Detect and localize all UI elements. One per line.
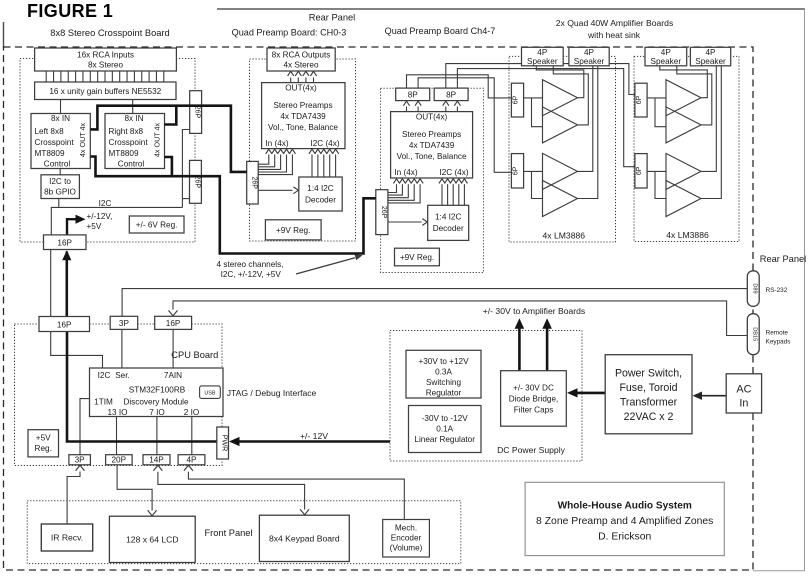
svg-text:7AIN: 7AIN [164,371,182,380]
box AC In [726,374,761,413]
wire 8P run A to amp2 6P upper [446,64,635,95]
svg-text:RS-232: RS-232 [766,287,788,294]
wire preamp B OUT(4x) arrows to 8P connectors [406,107,408,112]
connector 6P upper board1 [511,83,523,117]
svg-text:-30V to -12V: -30V to -12V [422,414,469,423]
svg-text:D89: D89 [751,283,757,293]
wire 8P run B to amp2 6P lower [457,69,635,167]
wire thick 16P to CPU 16P with up arrow [66,252,69,317]
svg-text:16x RCA Inputs: 16x RCA Inputs [77,50,134,59]
svg-text:Keypads: Keypads [766,339,791,346]
box 1:4 I2C decoder B [428,205,469,240]
svg-text:Transformer: Transformer [620,397,678,409]
box whole-house audio system title [525,482,724,555]
svg-text:Discovery Module: Discovery Module [123,397,189,406]
wire arrow label to bus [296,258,355,274]
svg-text:4x Stereo: 4x Stereo [283,61,318,70]
svg-text:JTAG / Debug Interface: JTAG / Debug Interface [227,388,317,398]
wire 6P to amp inputs lower pair (board at x+0) [524,170,543,172]
connector 26P 2 [190,160,202,203]
svg-text:3P: 3P [75,456,86,465]
svg-text:Front Panel: Front Panel [204,528,252,538]
svg-text:8x4 Keypad Board: 8x4 Keypad Board [269,534,340,544]
page frame left segment [3,22,5,48]
wire 16P to STM32 7AIN pin [172,329,174,368]
wire 6P to amp inputs upper pair (board at x+0) [524,97,543,99]
svg-text:22VAC x 2: 22VAC x 2 [624,411,674,423]
op-amp LM3886 triangle 4 (board at x+123.5) [666,181,701,217]
svg-text:I2C to: I2C to [49,177,71,186]
svg-text:8P: 8P [408,90,419,99]
wire STM32 7 IO to 14P [156,417,158,455]
svg-text:Mech.: Mech. [395,524,417,533]
wire buffers to left crosspoint 8x IN [60,100,62,114]
box +5V Reg. [28,430,59,457]
connector 8P a [396,88,430,101]
svg-text:8x RCA Outputs: 8x RCA Outputs [272,50,331,59]
op-amp LM3886 triangle 2 (board at x+123.5) [666,107,701,143]
box stereo preamps TDA7439 (Ch4-7) [391,112,473,178]
wire thick +/-30V arrows up from diode bridge [518,328,521,371]
connector 26P 3 [247,161,259,204]
svg-text:4P: 4P [661,48,672,57]
wire preamp A OUT(4x) arrows to RCA outputs [290,78,292,83]
svg-text:6P: 6P [636,95,643,104]
wire fan 26P to preamp A In(4x) [258,155,269,165]
svg-text:Regulator: Regulator [426,389,462,398]
svg-text:+/- 6V Reg.: +/- 6V Reg. [136,220,178,229]
connector 16P crosspoint [44,235,87,250]
svg-text:I2C: I2C [99,199,112,208]
svg-text:20P: 20P [112,456,127,465]
wire I2C bus riser to 26P [182,130,189,208]
op-amp LM3886 triangle 3 (board at x+123.5) [666,153,701,189]
svg-text:Diode Bridge,: Diode Bridge, [509,394,559,403]
wire amp4 output to speaker (board at x+123.5) [701,66,721,199]
svg-text:OUT(4x): OUT(4x) [416,113,448,122]
svg-text:+9V Reg.: +9V Reg. [400,253,434,262]
svg-text:Speaker: Speaker [695,57,726,66]
board outline amplifier board 2 [634,56,739,241]
wire thick power arrow from 16P up [67,219,76,235]
svg-text:Control: Control [44,160,71,169]
box IR Recv. [41,524,92,551]
svg-text:Filter Caps: Filter Caps [514,405,554,414]
wire thick +/-12V from DC supply to PWR with left arrow [239,440,391,443]
svg-text:In (4x): In (4x) [394,168,417,177]
svg-text:8x IN: 8x IN [51,114,70,123]
svg-text:Stereo Preamps: Stereo Preamps [273,101,332,110]
svg-text:+/- 12V: +/- 12V [300,431,328,441]
svg-text:Speaker: Speaker [651,57,682,66]
box -30V to -12V linear regulator [409,406,482,453]
connector 4P speaker 3 [645,47,687,66]
connector 16P cpu right [155,316,192,329]
svg-text:IR Recv.: IR Recv. [51,533,83,543]
connector 4P bottom [178,455,205,465]
svg-text:OUT(4x): OUT(4x) [285,84,317,93]
svg-text:with heat sink: with heat sink [587,30,641,40]
wire 8P run C to amp1 6P upper [407,75,512,98]
connector PWR [217,427,229,459]
svg-text:Right 8x8: Right 8x8 [109,127,144,136]
svg-text:8 Zone Preamp and 4 Amplified: 8 Zone Preamp and 4 Amplified Zones [536,516,713,527]
connector 26P 1 [190,91,202,134]
svg-text:4x LM3886: 4x LM3886 [543,231,586,241]
svg-text:AC: AC [736,384,751,396]
svg-text:3P: 3P [119,319,130,328]
connector 4P speaker 4 [690,47,730,66]
svg-text:16P: 16P [57,238,72,247]
svg-text:Decoder: Decoder [305,196,336,205]
connector 20P [106,455,133,465]
svg-text:In: In [739,398,748,410]
box mech encoder volume [383,520,430,558]
wire arrow 26P to decoder B [388,221,422,223]
svg-text:I2C: I2C [98,371,111,380]
svg-text:PWR: PWR [221,435,230,452]
wire amp1 output to speaker (board at x+123.5) [660,66,708,98]
box right 8x8 crosspoint MT8809 [105,114,165,169]
svg-text:Power Switch,: Power Switch, [615,368,682,380]
svg-text:4P: 4P [537,48,548,57]
connector 6P lower board1 [511,154,523,188]
box 16x RCA Inputs [35,48,177,71]
svg-text:1:4 I2C: 1:4 I2C [435,213,461,222]
svg-text:I2C (4x): I2C (4x) [439,168,468,177]
svg-text:Speaker: Speaker [574,57,605,66]
op-amp LM3886 triangle 3 (board at x+0) [543,153,578,189]
svg-text:0.3A: 0.3A [435,368,452,377]
board outline DC power supply [390,331,582,462]
wire comb 16x RCA inputs to buffers [45,71,47,82]
box 8x4 Keypad Board [259,515,349,561]
connector 16P cpu left [39,317,90,332]
svg-text:(Volume): (Volume) [390,544,423,553]
wire thick audio bus B right crosspoint branch [165,157,172,176]
svg-text:0.1A: 0.1A [436,425,453,434]
svg-text:Quad Preamp Board: CH0-3: Quad Preamp Board: CH0-3 [232,28,347,38]
svg-text:Decoder: Decoder [433,224,464,233]
svg-text:Stereo Preamps: Stereo Preamps [402,130,461,139]
board outline quad preamp board CH0-3 [250,59,356,241]
svg-text:+9V Reg.: +9V Reg. [276,226,310,235]
svg-text:4 stereo channels,: 4 stereo channels, [217,260,284,269]
svg-text:16P: 16P [166,319,181,328]
svg-text:+/-12V,: +/-12V, [87,212,113,221]
wire fan decoder B to preamp B I2C(4x) [441,184,443,205]
svg-text:8b GPIO: 8b GPIO [44,188,76,197]
box +9V Reg. B [395,248,440,266]
svg-text:4x LM3886: 4x LM3886 [666,230,709,240]
svg-text:Speaker: Speaker [527,57,558,66]
connector 6P lower board2 [635,154,647,188]
op-amp LM3886 triangle 4 (board at x+0) [543,181,578,217]
svg-text:I2C (4x): I2C (4x) [310,139,339,148]
svg-text:Rear Panel: Rear Panel [760,254,807,264]
svg-text:Linear Regulator: Linear Regulator [414,435,475,444]
connector 3P bottom [69,455,91,465]
connector 6P upper board2 [635,83,647,117]
box 8x RCA Outputs [267,48,335,71]
connector 8P b [434,88,468,101]
svg-text:Rear Panel: Rear Panel [309,13,356,23]
svg-text:+30V to +12V: +30V to +12V [418,357,469,366]
wire STM32 1TIM to 3P connector [80,399,90,455]
svg-text:1:4 I2C: 1:4 I2C [307,184,333,193]
wire thick audio bus B left crosspoint out [90,157,376,254]
box +9V Reg. A [265,220,321,240]
connector 14P [143,455,170,465]
board outline 8x8 stereo crosspoint board [20,59,195,243]
svg-text:+5V: +5V [87,222,102,231]
svg-text:+/- 30V DC: +/- 30V DC [513,383,554,392]
svg-text:4x TDA7439: 4x TDA7439 [409,141,455,150]
svg-text:8x8 Stereo Crosspoint Board: 8x8 Stereo Crosspoint Board [50,28,169,38]
svg-text:STM32F100RB: STM32F100RB [129,385,186,394]
svg-text:DB15: DB15 [751,327,757,341]
svg-text:16 x unity gain buffers NE5532: 16 x unity gain buffers NE5532 [49,87,161,96]
box power switch fuse toroid transformer [605,355,692,434]
svg-text:7 IO: 7 IO [149,408,164,417]
svg-text:26P: 26P [194,106,201,119]
page frame bottom-right line [753,570,805,572]
svg-text:CPU Board: CPU Board [171,350,218,360]
page frame top line [217,8,805,10]
op-amp LM3886 triangle 2 (board at x+0) [543,107,578,143]
box left 8x8 crosspoint MT8809 [31,114,90,169]
svg-text:D. Erickson: D. Erickson [598,532,651,543]
svg-text:Vol., Tone, Balance: Vol., Tone, Balance [268,123,338,132]
svg-text:Remote: Remote [766,330,789,337]
wire arrow 26P to decoder A [258,189,292,191]
box +/- 6V Reg. [129,216,184,233]
svg-text:6P: 6P [513,95,520,104]
wire amp2 output to speaker (board at x+123.5) [677,66,712,125]
wire AC In to power switch with left arrow [701,395,727,397]
wire left crosspoint control to I2C GPIO [59,169,61,175]
wire 20P to LCD with down arrow [117,465,152,511]
svg-text:4x TDA7439: 4x TDA7439 [280,112,326,121]
svg-text:2 IO: 2 IO [184,408,199,417]
svg-text:4P: 4P [584,48,595,57]
svg-text:MT8809: MT8809 [109,149,139,158]
wire thick audio bus A left crosspoint out to 26P [90,106,246,172]
svg-text:Crosspoint: Crosspoint [35,138,75,147]
svg-text:USB: USB [204,390,215,396]
svg-text:Quad Preamp Board Ch4-7: Quad Preamp Board Ch4-7 [385,26,496,36]
op-amp LM3886 triangle 1 (board at x+0) [543,80,578,116]
svg-text:Crosspoint: Crosspoint [109,138,149,147]
wire 6P to amp inputs lower pair (board at x+123.5) [647,170,666,172]
wire 3P to RS-232 D89 [122,289,747,317]
box +30V to +12V switching regulator [406,350,481,398]
wire amp3 output to speaker (board at x+0) [578,66,593,172]
connector 3P cpu [110,316,138,329]
svg-text:16P: 16P [57,320,72,329]
svg-text:4P: 4P [705,48,716,57]
svg-text:Reg.: Reg. [35,444,52,453]
svg-text:DC Power Supply: DC Power Supply [497,445,566,455]
svg-text:2x Quad 40W Amplifier Boards: 2x Quad 40W Amplifier Boards [556,18,674,28]
box +/- 30V DC diode bridge filter caps [501,371,567,427]
svg-text:Switching: Switching [426,378,461,387]
svg-text:+/- 30V to Amplifier Boards: +/- 30V to Amplifier Boards [483,306,585,316]
svg-text:Vol., Tone, Balance: Vol., Tone, Balance [397,152,467,161]
box 1:4 I2C decoder A [299,177,342,211]
svg-text:Fuse, Toroid: Fuse, Toroid [619,382,677,394]
wire 8P run D to amp1 6P lower [418,78,511,173]
wire 16P to STM32 I2C pin [51,332,103,369]
wire STM32 13 IO to 20P [116,417,118,455]
box 16 x unity gain buffers NE5532 [35,82,176,100]
svg-text:4P: 4P [186,456,197,465]
wire STM32 2 IO to 4P [191,417,193,455]
wire thick audio bus A right crosspoint branch [165,106,177,125]
wire I2C gpio stub [58,199,60,208]
svg-text:26P: 26P [380,206,387,219]
svg-text:6P: 6P [513,166,520,175]
connector 26P 4 [376,190,388,235]
board outline CPU board [15,324,223,466]
board outline front panel [27,501,461,564]
svg-text:128 x 64 LCD: 128 x 64 LCD [126,535,179,545]
wire thin 16P to 16P link [50,250,52,317]
svg-text:I2C, +/-12V, +5V: I2C, +/-12V, +5V [221,270,282,279]
board outline quad preamp board Ch4-7 [381,88,484,272]
svg-text:Whole-House Audio System: Whole-House Audio System [558,501,692,512]
connector 4P speaker 1 [522,47,564,66]
wire amp4 output to speaker (board at x+0) [578,66,598,199]
wire buffers to right crosspoint 8x IN [132,100,134,114]
svg-text:4x OUT 4x: 4x OUT 4x [78,122,87,157]
svg-text:8P: 8P [446,90,457,99]
svg-text:8x IN: 8x IN [124,114,143,123]
wire 6P to amp inputs upper pair (board at x+123.5) [647,97,666,99]
wire IR receiver to 3P with up arrow [67,472,80,525]
wire amp1 output to speaker (board at x+0) [536,66,584,98]
wire fan 26P to preamp B In(4x) [388,184,397,192]
wire 3P to STM32 Ser pin [121,329,123,368]
box STM32F100RB discovery module [90,368,224,417]
wire DB15 to 16P with down arrow [173,301,747,336]
wire I2C bus horizontal [51,207,182,235]
wire amp3 output to speaker (board at x+123.5) [701,66,716,172]
wire 14P to keypad with arrows both ends [158,472,305,510]
svg-text:Encoder: Encoder [391,534,422,543]
op-amp LM3886 triangle 1 (board at x+123.5) [666,80,701,116]
wire 4P to encoder with up arrow [188,472,404,520]
connector USB [200,386,221,399]
svg-text:Ser.: Ser. [115,371,130,380]
box stereo preamps TDA7439 (CH0-3) [262,83,345,149]
wire fan decoder A to preamp A I2C(4x) [311,155,313,178]
svg-text:Left 8x8: Left 8x8 [35,127,65,136]
svg-text:6P: 6P [636,166,643,175]
page frame right line [804,9,806,571]
wire thick CPU power bus 16P to PWR [67,332,217,442]
svg-text:13 IO: 13 IO [107,408,127,417]
svg-text:+5V: +5V [36,434,51,443]
svg-text:Control: Control [118,160,145,169]
svg-text:MT8809: MT8809 [35,149,65,158]
svg-text:8x Stereo: 8x Stereo [88,61,123,70]
svg-text:In (4x): In (4x) [265,139,288,148]
svg-text:14P: 14P [149,456,164,465]
svg-text:26P: 26P [250,176,257,189]
wire I2C branch to 26P-2 [182,198,189,200]
svg-text:4x OUT 4x: 4x OUT 4x [152,122,161,157]
connector 4P speaker 2 [569,47,609,66]
board outline amplifier board 1 [509,56,616,242]
connector D89 RS-232 [747,271,759,307]
box 128 x 64 LCD [109,516,195,562]
box I2C to 8b GPIO [41,175,79,199]
wire thick transformer to diode bridge with left arrow [576,392,605,395]
svg-text:FIGURE 1: FIGURE 1 [27,1,113,21]
wire amp2 output to speaker (board at x+0) [553,66,588,125]
connector DB15 remote keypads [747,314,759,355]
svg-text:1TIM: 1TIM [94,397,113,406]
